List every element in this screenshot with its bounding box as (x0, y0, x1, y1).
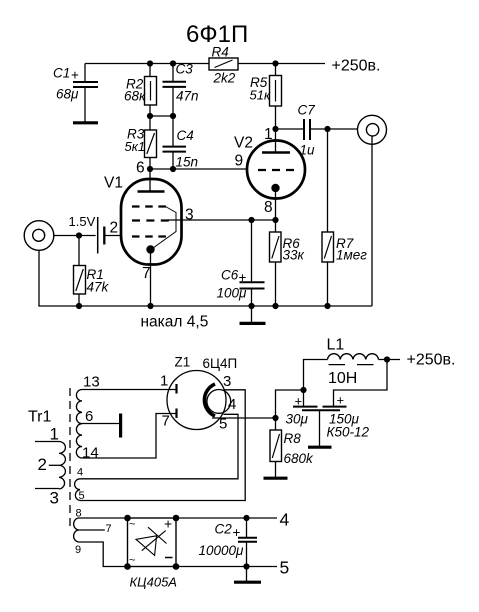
svg-text:5к1: 5к1 (125, 139, 146, 154)
svg-text:4: 4 (228, 396, 236, 413)
svg-text:680k: 680k (284, 451, 315, 466)
svg-text:47k: 47k (87, 280, 110, 295)
svg-text:100μ: 100μ (217, 286, 248, 301)
svg-text:7: 7 (106, 523, 112, 535)
svg-text:Z1: Z1 (175, 355, 191, 370)
svg-text:6: 6 (85, 408, 93, 425)
svg-text:8: 8 (264, 199, 273, 216)
svg-text:3: 3 (223, 373, 231, 390)
svg-text:3: 3 (185, 207, 194, 224)
svg-text:47n: 47n (176, 89, 199, 104)
svg-text:7: 7 (142, 265, 151, 282)
svg-text:33к: 33к (283, 248, 305, 263)
svg-text:4: 4 (280, 510, 290, 530)
svg-text:+: + (233, 525, 241, 540)
svg-text:13: 13 (83, 374, 100, 391)
svg-text:C1: C1 (53, 66, 70, 81)
svg-text:1мег: 1мег (336, 248, 367, 263)
svg-text:51к: 51к (250, 88, 271, 103)
svg-text:C4: C4 (177, 128, 194, 143)
svg-text:+: + (164, 516, 172, 532)
svg-text:C7: C7 (298, 103, 316, 118)
svg-text:2: 2 (38, 455, 47, 474)
svg-text:2k2: 2k2 (213, 71, 236, 86)
svg-text:К50-12: К50-12 (327, 425, 370, 440)
svg-text:3: 3 (50, 489, 59, 508)
svg-text:4: 4 (77, 467, 83, 479)
svg-text:5: 5 (219, 416, 227, 433)
svg-text:V1: V1 (104, 175, 123, 192)
svg-text:~: ~ (129, 555, 135, 567)
svg-text:1: 1 (264, 126, 273, 143)
svg-text:2: 2 (110, 220, 119, 237)
svg-text:5: 5 (280, 558, 290, 578)
svg-text:68к: 68к (124, 89, 146, 104)
svg-text:+250в.: +250в. (332, 58, 381, 75)
svg-text:+: + (295, 394, 303, 409)
svg-text:C3: C3 (176, 62, 194, 77)
svg-text:+: + (337, 393, 345, 408)
svg-text:~: ~ (129, 519, 135, 531)
svg-text:C6: C6 (221, 268, 239, 283)
svg-text:+: + (239, 270, 247, 285)
svg-text:10000μ: 10000μ (199, 543, 245, 558)
svg-text:1: 1 (50, 425, 59, 444)
svg-text:накал 4,5: накал 4,5 (141, 314, 209, 331)
svg-text:1u: 1u (300, 143, 316, 158)
svg-text:5: 5 (79, 490, 85, 502)
svg-text:C2: C2 (215, 522, 233, 537)
svg-text:1: 1 (160, 373, 168, 390)
svg-text:68μ: 68μ (56, 87, 79, 102)
svg-text:+: + (71, 68, 79, 83)
svg-text:R4: R4 (212, 45, 229, 60)
svg-text:15n: 15n (176, 155, 199, 170)
svg-text:6: 6 (136, 160, 145, 177)
svg-text:14: 14 (82, 445, 99, 462)
svg-text:L1: L1 (327, 337, 345, 354)
svg-text:10H: 10H (328, 370, 357, 387)
svg-text:V2: V2 (234, 135, 253, 152)
svg-text:+250в.: +250в. (407, 352, 456, 369)
svg-text:R8: R8 (284, 431, 302, 446)
svg-text:1.5V: 1.5V (69, 214, 96, 229)
svg-text:6Ц4П: 6Ц4П (203, 356, 238, 371)
svg-text:Tr1: Tr1 (28, 409, 52, 426)
svg-text:9: 9 (235, 153, 244, 170)
svg-text:30μ: 30μ (286, 412, 309, 427)
svg-text:9: 9 (75, 544, 81, 556)
svg-text:8: 8 (76, 508, 82, 520)
svg-text:7: 7 (162, 413, 170, 430)
svg-text:КЦ405А: КЦ405А (130, 575, 177, 590)
